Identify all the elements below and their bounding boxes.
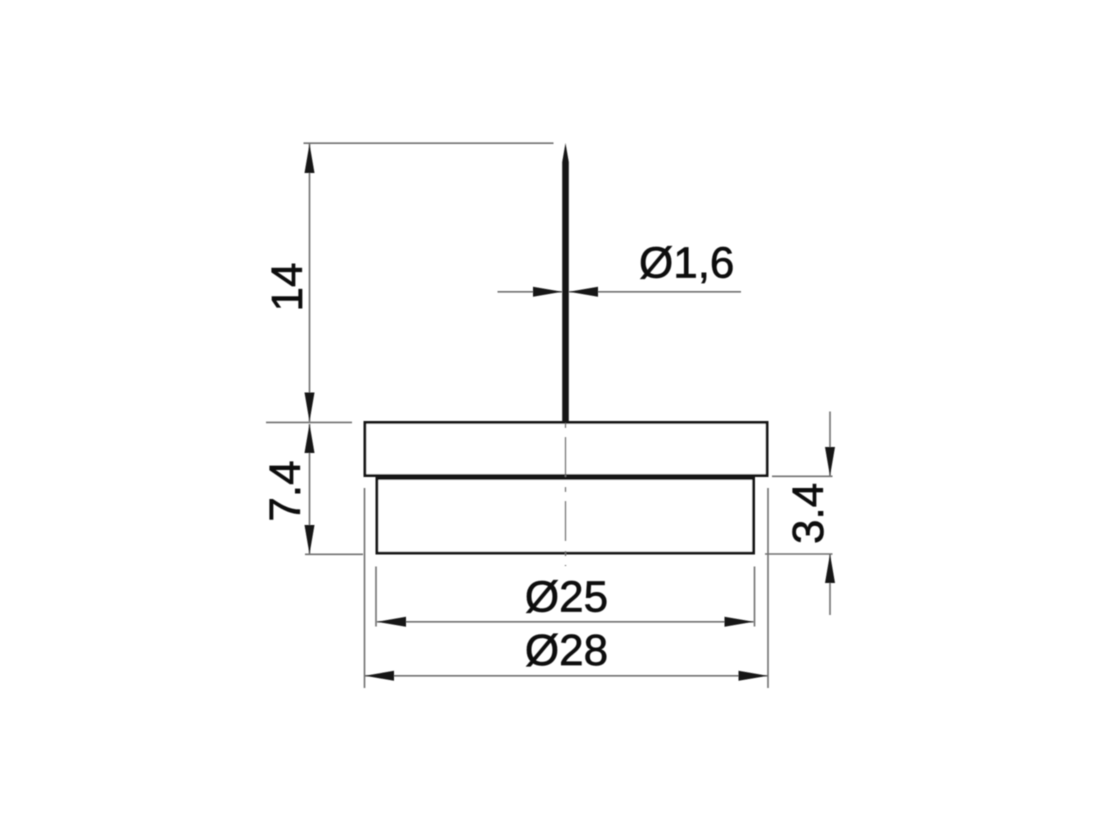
dim 7.4 arrow up	[305, 424, 315, 453]
dim Ø28 extension line right	[767, 488, 769, 688]
svg-text:7.4: 7.4	[261, 460, 310, 521]
dim Ø25 extension line right	[754, 567, 756, 627]
nail pin shaft	[562, 143, 569, 423]
dim Ø1,6 arrow left-pointing	[569, 287, 598, 297]
dim Ø1,6 leader line left	[498, 291, 563, 293]
dim 14 extension line bottom	[266, 421, 352, 423]
dim Ø25 dimension line	[377, 621, 754, 623]
svg-text:Ø1,6: Ø1,6	[639, 239, 734, 288]
dim 3.4 arrow up-pointing	[825, 554, 835, 583]
svg-text:Ø28: Ø28	[525, 626, 608, 675]
dim 7.4 extension line bottom	[305, 553, 363, 555]
dim 7.4 label	[261, 460, 310, 521]
cap flange (top rectangle)	[365, 422, 767, 475]
dim Ø25 arrow right	[725, 617, 754, 627]
dim Ø25 label	[525, 573, 608, 622]
dim 7.4 arrow down	[305, 525, 315, 554]
dim 7.4 dimension line	[309, 424, 311, 554]
dim 14 dimension line	[309, 144, 311, 422]
svg-text:3.4: 3.4	[784, 483, 833, 544]
dim Ø1,6 arrow right-pointing	[533, 287, 562, 297]
dim Ø28 dimension line	[365, 675, 768, 677]
dim 3.4 lower leader line	[829, 554, 831, 615]
dim Ø1,6 leader line right	[569, 291, 741, 293]
svg-text:Ø25: Ø25	[525, 573, 608, 622]
dim Ø28 arrow left	[365, 671, 394, 681]
dim 14 arrow up	[305, 144, 315, 173]
centerline	[565, 423, 567, 566]
dim 3.4 upper leader line	[829, 412, 831, 477]
dim 14 extension line top	[304, 142, 554, 144]
dim 3.4 arrow down-pointing	[825, 447, 835, 476]
dim 3.4 label	[784, 483, 833, 544]
dim Ø28 arrow right	[739, 671, 768, 681]
dim 3.4 extension line upper	[772, 475, 833, 477]
svg-text:14: 14	[263, 263, 312, 312]
dim Ø28 label	[525, 626, 608, 675]
dim Ø25 arrow left	[377, 617, 406, 627]
dim 14 arrow down	[305, 393, 315, 422]
dim 3.4 extension line lower	[765, 553, 833, 555]
cap base (lower rectangle)	[377, 478, 754, 553]
dim Ø25 extension line left	[375, 567, 377, 627]
dim Ø28 extension line left	[364, 488, 366, 688]
dim 14 label	[263, 263, 312, 312]
dim Ø1,6 label	[639, 239, 734, 288]
